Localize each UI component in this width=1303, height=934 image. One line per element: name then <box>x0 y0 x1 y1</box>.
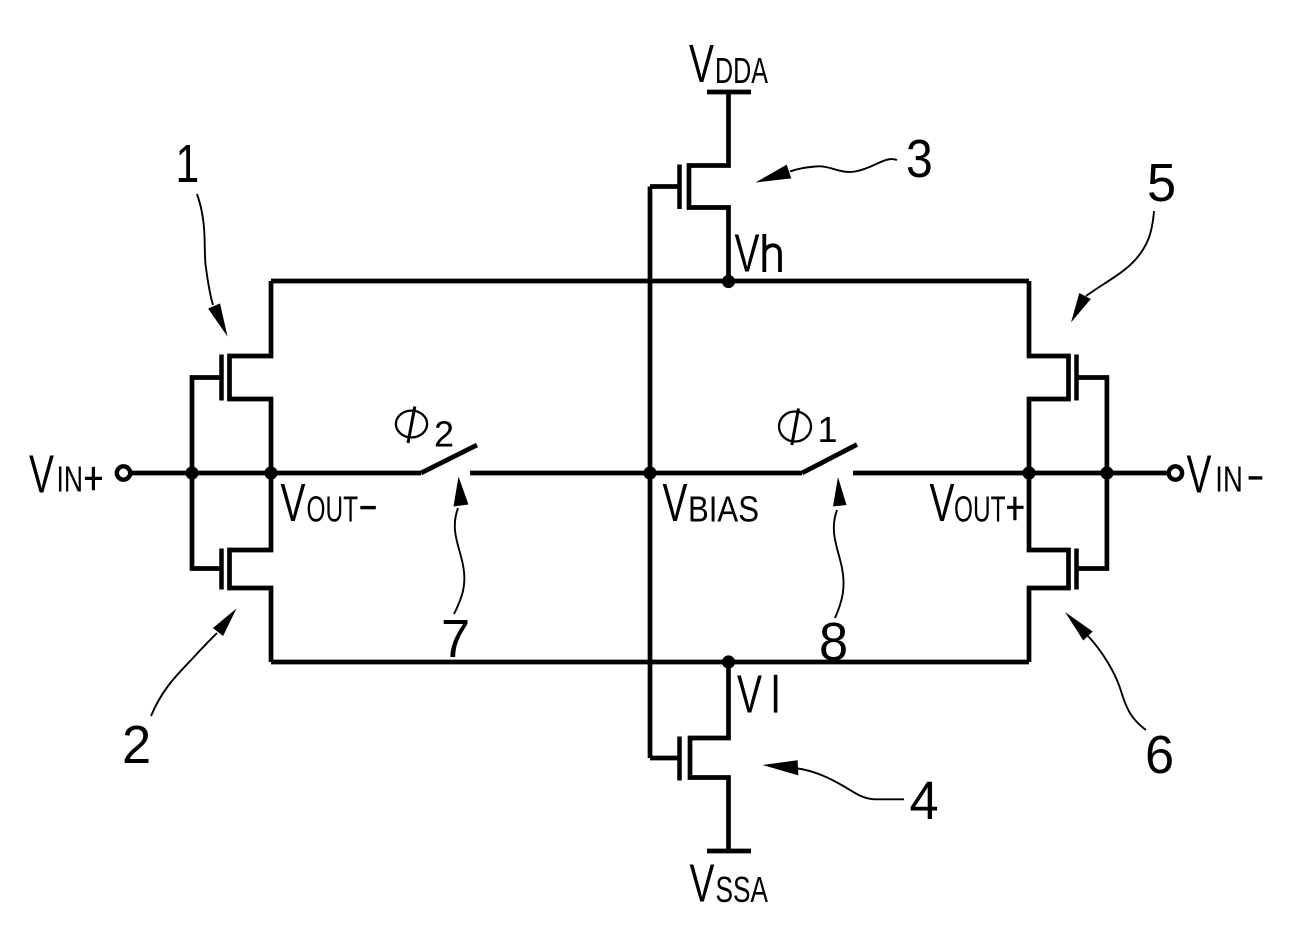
svg-text:OUT: OUT <box>954 489 1006 530</box>
transistor 3 (top current source) body: stem from VDDA, drain lead, channel, source lead down to Vh <box>689 92 729 281</box>
svg-text:OUT: OUT <box>307 489 359 530</box>
arrow to transistor 1 <box>197 194 213 305</box>
transistor 4 gate lead <box>650 756 680 761</box>
svg-text:V: V <box>663 472 688 532</box>
phi2 slash <box>408 407 415 444</box>
svg-text:V: V <box>281 472 306 532</box>
svg-text:V: V <box>930 472 955 532</box>
letter l of Vl <box>774 675 778 713</box>
svg-text:SSA: SSA <box>716 869 769 910</box>
node Vl junction dot <box>722 655 735 668</box>
svg-text:V: V <box>689 33 714 93</box>
svg-text:V: V <box>737 664 762 724</box>
input terminal VIN- circle <box>1169 466 1182 479</box>
phi1 symbol circle <box>779 412 811 442</box>
junction dot VBIAS node <box>643 466 656 479</box>
svg-text:IN: IN <box>1215 459 1243 500</box>
arrow to transistor 6 <box>1088 636 1146 730</box>
junction dot VOUT- node <box>264 466 277 479</box>
transistor 5 (top-right) body <box>1029 281 1069 473</box>
switch 7 blade <box>421 445 477 473</box>
right gate bus with gate leads of 5 and 6 <box>1077 378 1107 569</box>
svg-text:1: 1 <box>176 134 200 194</box>
transistor 2 gate bar <box>219 549 224 590</box>
svg-text:IN: IN <box>57 459 84 500</box>
top rail wire (Vh bus) <box>271 279 1029 284</box>
phi2 symbol circle <box>396 411 427 438</box>
switch 8 blade <box>802 445 857 474</box>
center vertical VBIAS line (gate of 3 to gate of 4) <box>648 187 653 759</box>
power rail VSSA bar <box>707 849 751 854</box>
arrow to transistor 2 <box>151 633 217 716</box>
svg-text:1: 1 <box>818 409 838 450</box>
transistor 4 (bottom current source) body: stem from Vl, drain lead, channel, source lead to VSSA <box>690 662 729 851</box>
svg-text:V: V <box>29 444 54 504</box>
junction dot left gate bus <box>185 466 198 479</box>
svg-text:BIAS: BIAS <box>688 489 759 530</box>
svg-text:5: 5 <box>1147 153 1176 213</box>
svg-text:V: V <box>690 853 715 913</box>
transistor 6 (bottom-right) body <box>1029 473 1069 662</box>
transistor 6 gate bar <box>1074 549 1079 590</box>
transistor 3 gate bar <box>677 165 682 210</box>
svg-text:2: 2 <box>122 715 151 775</box>
transistor 3 gate lead <box>650 184 680 189</box>
arrow to transistor 3 <box>790 159 897 172</box>
transistor 1 (top-left) body: lead from top rail, drain lead, channel, source lead to VOUT- node <box>230 281 272 473</box>
arrow to switch 8 <box>834 510 844 618</box>
input terminal VIN+ circle <box>117 466 130 479</box>
svg-text:6: 6 <box>1145 725 1174 785</box>
power rail VDDA bar <box>707 90 751 95</box>
wire VIN+ to VOUT- node <box>131 471 422 476</box>
wire switch 7 to VBIAS node <box>470 471 802 476</box>
arrow to switch 7 <box>454 508 464 614</box>
svg-text:4: 4 <box>910 771 939 831</box>
transistor 4 gate bar <box>677 737 682 781</box>
node Vh junction dot <box>722 275 735 288</box>
transistor 1 gate bar <box>219 355 224 401</box>
svg-text:DDA: DDA <box>715 50 768 91</box>
transistor 5 gate bar <box>1074 355 1079 401</box>
svg-text:V: V <box>735 223 760 283</box>
transistor 2 (bottom-left) body <box>230 473 272 662</box>
svg-text:2: 2 <box>434 414 454 455</box>
letter h of Vh <box>764 234 780 272</box>
phi1 slash <box>792 409 799 446</box>
arrow to transistor 5 <box>1086 211 1154 296</box>
svg-text:3: 3 <box>906 128 933 188</box>
arrow to transistor 4 <box>798 769 904 800</box>
left gate bus with gate leads of 1 and 2 <box>192 378 222 569</box>
junction dot VOUT+ node <box>1022 466 1035 479</box>
svg-text:V: V <box>1187 444 1212 504</box>
bottom rail wire (Vl bus) <box>271 660 1029 665</box>
wire switch 8 to VOUT+ node and VIN- terminal <box>853 471 1167 476</box>
junction dot right gate bus <box>1100 466 1113 479</box>
